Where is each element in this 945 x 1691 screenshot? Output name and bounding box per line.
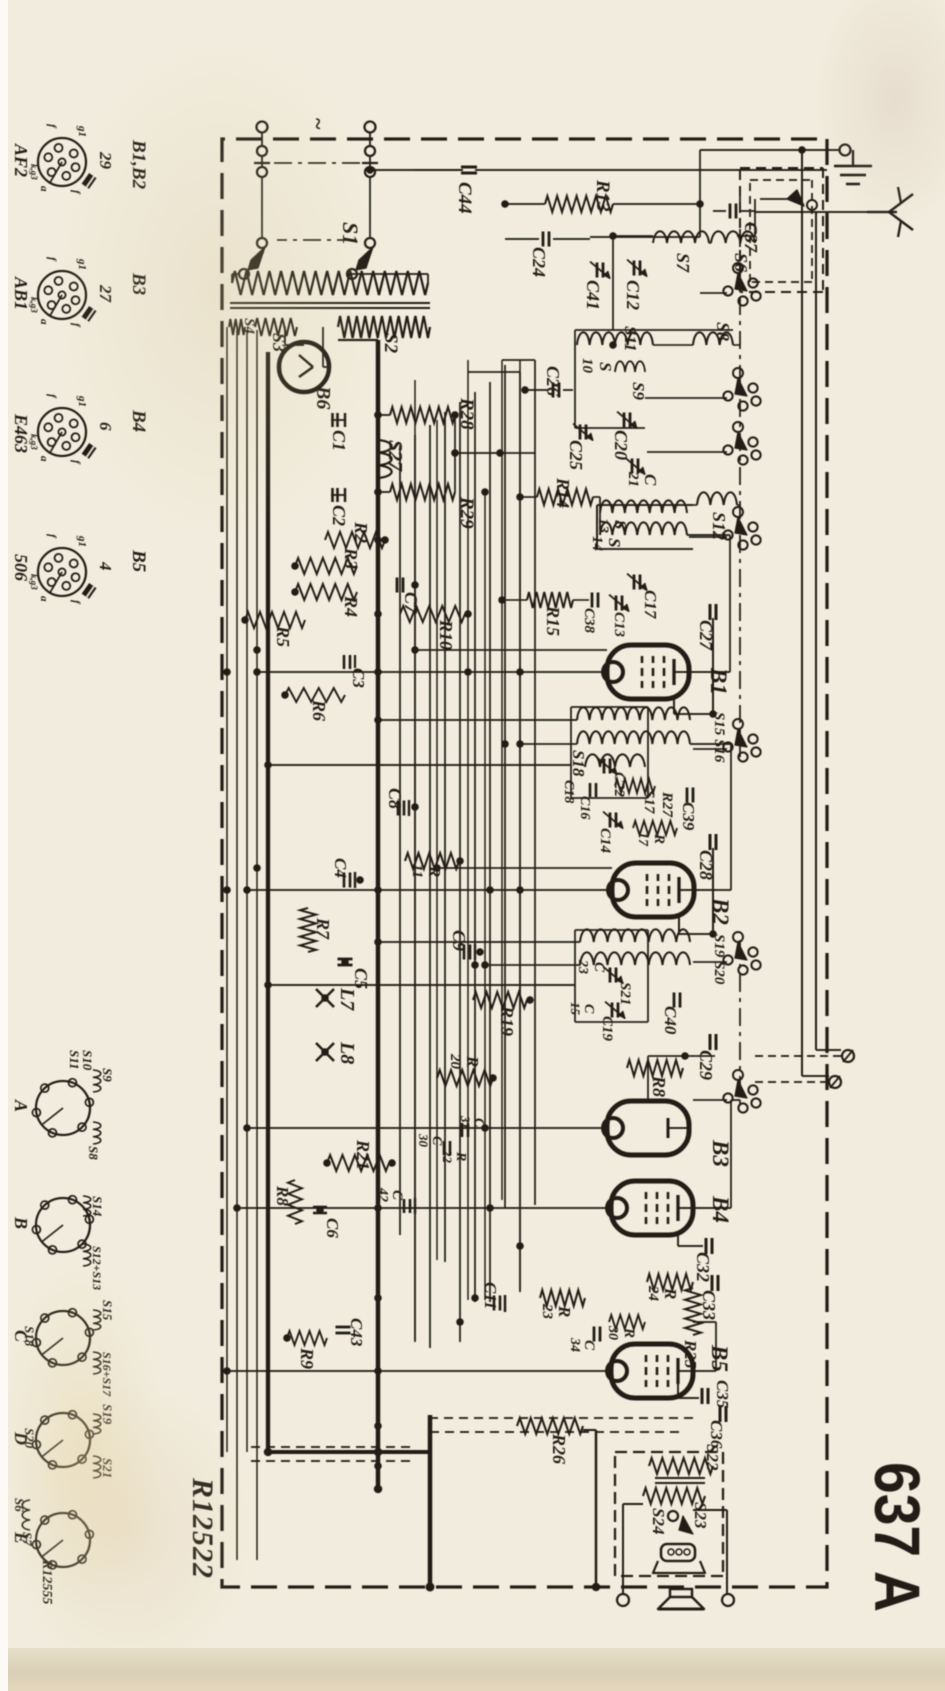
wire mesh y455 [489,382,491,1302]
wire mesh y500 [444,412,446,1262]
svg-text:C8: C8 [385,788,405,809]
tweeter cone [653,1561,705,1573]
capacitor C38 [597,593,600,608]
svg-text:S9: S9 [100,1068,115,1082]
wire S12 chain join [737,504,740,506]
wire mesh y545 [399,445,401,1235]
coil S9 [615,361,645,372]
svg-text:a: a [38,456,50,462]
wire B1 anode [673,699,675,714]
pickup terminal 2 [829,1076,841,1088]
antenna [867,211,897,213]
mains plug pin 2 [365,122,376,133]
mains link chain [272,162,360,164]
svg-text:R26: R26 [549,1433,569,1464]
svg-text:S: S [605,538,624,547]
svg-text:C26: C26 [543,366,563,396]
wire IF2 secondary down [485,964,580,966]
svg-text:E463: E463 [11,413,31,453]
wire IF2 box feed [268,984,575,986]
switch wafer E [36,1513,90,1567]
svg-text:S15 S16: S15 S16 [711,712,727,763]
resistor R29 [390,484,455,500]
coil S12 [697,492,737,505]
IF2 primary coil S19 [580,929,690,942]
resistor R19 [473,992,527,1008]
svg-text:AB1: AB1 [11,276,31,310]
svg-text:21: 21 [625,471,641,487]
coil S14 [600,522,687,535]
wire bus junction dots [374,411,382,419]
wire IF1 primary feed [378,719,577,721]
svg-text:22: 22 [440,1149,455,1164]
tube B5 [611,1344,693,1398]
ground terminal [840,145,851,156]
coil S7 [653,231,709,243]
svg-text:B3: B3 [708,1139,733,1167]
RF coil box [575,329,733,331]
wire mains 1 [261,177,263,238]
wire earth run to pickup [801,150,803,1076]
wire B4 grid link [716,1207,731,1209]
capacitor C27 [715,604,718,620]
switch contact wafer [748,383,757,392]
resistor R10 [400,606,465,622]
svg-text:AF2: AF2 [11,143,31,177]
transformer core [230,302,430,304]
wafer D coils S19 S20 S21 [93,1414,101,1434]
svg-text:23: 23 [539,1303,555,1320]
wire earth lead [700,149,839,151]
wire B2 grid [694,889,717,891]
svg-text:C41: C41 [583,280,603,310]
wire mesh y440 [504,365,506,1208]
resistor R4 [295,584,357,600]
capacitor C26 [563,389,573,391]
switch wafer C [36,1311,90,1365]
wire filament bus a [256,330,258,1560]
IF1 secondary coil S16 [577,731,690,744]
wire S1 to transformer 1 [232,273,239,275]
wire diode load [648,1055,715,1057]
svg-text:S14: S14 [90,1196,105,1217]
svg-text:R21: R21 [353,1139,373,1170]
capacitor C40 [679,993,682,1008]
svg-text:C44: C44 [454,182,475,214]
svg-text:S10: S10 [80,1050,95,1071]
wire R29 bottom [378,491,390,493]
capacitor C37 [740,210,755,212]
svg-text:R: R [661,1287,680,1299]
svg-text:R: R [651,833,667,844]
resistor R2 [325,532,385,548]
wire B2 anode to C28 [678,917,680,934]
lightning arrester [787,190,804,206]
switch S24 [679,1516,693,1534]
svg-text:S24: S24 [649,1508,668,1534]
wire R13 bottom [505,203,545,205]
trimmer C22 [609,759,612,774]
trimmer C21 [637,459,640,474]
wire mesh y470 [474,392,476,1302]
transformer secondary S3 winding [255,318,297,336]
switch S1 pole 1 [257,238,267,248]
capacitor C42 [414,1198,416,1214]
svg-text:C18: C18 [561,780,576,803]
IF1 shield box [571,706,648,708]
wire B4 grid [693,1207,716,1209]
wire IF1 secondary down [520,743,577,745]
speaker terminal 2 [617,1594,629,1606]
svg-text:C43: C43 [347,1318,366,1347]
coil S11 [577,332,653,345]
switch contact wafer [748,522,757,531]
wire mid 5 [436,420,438,1260]
svg-text:S7: S7 [673,253,693,273]
valve socket AB1 [38,271,86,319]
wire B2 grid link [717,889,731,891]
wire IF1 box feed [268,764,571,766]
resistor R14 [537,489,593,505]
svg-text:A: A [11,1099,31,1112]
wire HT heavy bus [376,340,381,1489]
resistor R28 [390,407,455,423]
capacitor C9 [474,944,476,960]
wire mesh verticals [502,359,535,361]
wire speaker dashed leads [430,1417,693,1419]
tweeter transformer [661,1544,695,1561]
resistor R20 [437,1070,493,1086]
switch gang dash-dot line [739,195,741,760]
wire B6 leads [322,327,324,367]
wire R13 top [613,203,700,205]
wire filament bus d [226,327,228,1452]
coil S13 [600,500,687,513]
svg-text:C: C [591,962,607,973]
wire mesh junction dots [516,668,524,676]
wire IF2 primary feed [378,941,580,943]
lamp L7 [316,989,334,1007]
wire filament bus b [246,330,248,1452]
wire B1 grid [689,671,713,673]
trimmer C20 [629,413,632,428]
wire R15 links [573,599,589,601]
svg-text:C20: C20 [611,430,631,460]
coil S6 [711,231,755,243]
trimmer C13 [621,596,624,611]
resistor R27 S17 [615,779,655,793]
resistor R17 [633,821,677,835]
wire C44 to mains [370,169,463,171]
wire field coil feed [595,1430,598,1587]
wire speaker lead 2 [726,1510,728,1593]
wire mesh y515 [429,425,431,1348]
resistor R7 [300,908,316,952]
svg-text:C39: C39 [679,802,698,831]
svg-text:S19 S20: S19 S20 [711,934,727,985]
capacitor C6 [313,1206,327,1209]
wire mesh y425 [519,372,521,1292]
capacitor C29 [715,1034,718,1050]
capacitor C7 [402,578,405,593]
svg-text:R: R [555,1305,574,1317]
wire earth node link [699,150,701,237]
svg-text:C32: C32 [693,1252,713,1282]
resistor R23 [540,1290,585,1306]
svg-text:C: C [389,1190,405,1201]
svg-text:C14: C14 [597,828,613,854]
resistor R5 [245,612,305,628]
switch contact wafer [748,734,757,743]
grid capacitor C1 [331,419,345,421]
svg-text:C16: C16 [577,796,592,819]
speaker terminal 1 [722,1594,734,1606]
capacitor C8 [408,800,410,816]
svg-text:C12: C12 [623,280,643,310]
resistor R30b [609,1315,645,1329]
output transformer dashed box [722,1452,724,1576]
trimmer C12 [639,261,642,276]
svg-text:a: a [38,319,50,325]
svg-text:S22: S22 [703,1444,722,1471]
trimmer C17 [639,575,642,590]
svg-text:R9: R9 [297,1347,317,1369]
svg-text:30: 30 [416,1133,431,1148]
trimmer C25 [585,425,588,440]
capacitor C36 [725,1406,728,1422]
svg-text:C4: C4 [331,858,350,878]
svg-text:B5: B5 [128,549,149,573]
resistor R11 [405,853,459,869]
svg-text:R4: R4 [341,595,361,617]
capacitor C32 [711,1238,714,1254]
wire bus vertical left [338,339,378,341]
svg-text:k,g3: k,g3 [29,574,39,590]
wire stage drop B1 cathode [257,671,607,673]
dial lamp B6 [279,342,329,392]
transformer primary S1 winding [232,271,428,295]
svg-text:C17: C17 [641,590,660,620]
resistor R18 [288,1180,302,1224]
svg-text:C: C [641,474,660,486]
coil S18 [585,754,645,767]
resistor R25 [685,1288,701,1335]
wire stage drop B1 screen [415,649,607,651]
choke S27 [378,440,392,478]
svg-text:R15: R15 [543,605,563,636]
svg-text:4: 4 [96,561,115,571]
capacitor C24 [553,238,590,240]
wire B1 anode to C27 [673,699,675,714]
wafer B coils S14 S12+S13 [83,1196,91,1216]
tube B3 duodiode [607,1101,689,1155]
capacitor C3 [354,655,356,668]
capacitor C4 [354,872,356,888]
grid capacitor C2 [331,494,345,496]
svg-text:R10: R10 [436,619,456,650]
svg-text:S17: S17 [641,790,657,814]
wire B5 grid link [693,1370,716,1372]
IF1 primary coil S15 [577,707,690,720]
resistor R15 [527,592,573,608]
svg-text:23: 23 [575,959,590,974]
trimmer C19 [617,1003,620,1018]
capacitor C35 [707,1388,710,1404]
svg-text:B5: B5 [707,1344,732,1372]
svg-text:R8: R8 [649,1075,669,1097]
switch wafer D [36,1413,90,1467]
svg-text:11: 11 [409,864,425,878]
trimmer C14 [615,813,618,828]
wire R28 R29 top link [454,415,456,492]
transformer secondary S2 winding [338,316,430,338]
svg-text:R8: R8 [273,1185,292,1206]
wire heavy HT right [428,1415,432,1587]
svg-text:R19: R19 [497,1005,517,1036]
svg-text:a: a [38,596,50,602]
svg-text:C40: C40 [661,1006,680,1035]
resistor R6 [285,688,345,702]
speaker [670,1589,692,1597]
capacitor C44 [461,166,477,169]
svg-text:R: R [463,1055,482,1067]
wire mid 6 [414,380,416,1340]
wire antenna lead [755,211,869,213]
wafer C coils S15 S16+S17 S18 [93,1310,101,1330]
svg-text:R7: R7 [313,917,333,940]
svg-text:S21: S21 [617,982,633,1005]
svg-text:C29: C29 [696,1050,716,1080]
wire B1 grid link [713,671,730,673]
svg-text:34: 34 [567,1337,582,1352]
tube B1 [607,645,689,699]
wire S1 to transformer 2 [347,273,428,275]
svg-text:17: 17 [635,832,650,847]
tube B4 [611,1181,693,1235]
wire grid AVC 4 [467,360,469,1300]
lamp L8 [316,1043,334,1061]
wire S7 bottom link [613,235,653,237]
wire pickup tails [843,1050,853,1062]
capacitor C28 [715,834,718,850]
wire mesh y485 [459,402,461,1342]
switch wafer A [36,1081,90,1135]
wire grid AVC 3 [484,490,486,1300]
svg-text:24: 24 [645,1285,661,1302]
capacitor C5 [338,958,353,961]
svg-text:C9: C9 [449,930,469,951]
svg-text:L8: L8 [336,1041,358,1064]
svg-text:R6: R6 [309,699,329,721]
output secondary S23 [643,1488,705,1504]
wire stage drop B5 [227,1370,611,1372]
svg-text:B: B [11,1216,31,1229]
svg-text:R13: R13 [592,179,613,212]
wire B4 anode to C32 [677,1235,679,1246]
svg-text:C6: C6 [323,1218,342,1238]
resistor R3 [295,558,357,574]
trimmer S21 C23 [615,968,618,983]
valve socket 506 [38,548,86,596]
wire grid AVC 1 [519,360,521,1290]
svg-text:S23: S23 [691,1502,710,1529]
svg-text:C19: C19 [599,1016,615,1042]
ground [834,150,872,184]
svg-text:B2: B2 [708,897,733,925]
svg-text:R5: R5 [273,625,293,647]
svg-text:637 A: 637 A [861,1462,933,1612]
trimmer C41 [602,263,605,278]
capacitor C34 [599,1327,602,1342]
svg-text:S8: S8 [86,1146,101,1160]
antenna shield dashed box [822,168,824,292]
svg-text:S11: S11 [67,1050,82,1070]
switch contact wafer [748,437,757,446]
svg-text:C: C [581,1004,596,1014]
svg-text:f: f [70,600,82,605]
svg-text:S: S [596,362,615,371]
valve socket E463 [38,408,86,456]
switch contact S5 [748,278,757,287]
svg-text:C13: C13 [611,612,627,638]
wire aerial run to pickup [815,212,817,1050]
svg-text:C37: C37 [741,222,761,253]
resistor R9 [287,1331,327,1345]
wafer E coils S6 S7 [22,1500,30,1530]
trimmer C30 C31 R22 [467,1123,470,1137]
resistor R8 [627,1060,683,1076]
wire S6 S7 join [709,242,711,244]
svg-text:k,g3: k,g3 [29,164,39,180]
wire stage drop B3 [247,1127,607,1129]
tube B2 [612,863,694,917]
IF2 secondary coil S20 [580,952,690,965]
svg-text:k,g3: k,g3 [29,434,39,450]
output transformer core [655,1477,705,1479]
mains plug pin 1 [257,122,268,133]
svg-text:42: 42 [375,1187,390,1202]
wire contact drops [700,292,727,294]
svg-text:C35: C35 [713,1380,732,1409]
switch contact wafer [748,1085,757,1094]
svg-text:C: C [429,1136,444,1146]
capacitor C33 [717,1275,720,1291]
wire stage drop B4 [237,1207,611,1209]
frame: main dashed border of schematic [222,139,827,1587]
resistor R13 [545,196,613,212]
switch S1 pole 2 [365,238,375,248]
svg-text:506: 506 [11,554,31,581]
wire pickup dashes [755,1055,841,1057]
svg-text:k,g3: k,g3 [29,297,39,313]
switch S1 gang chain [277,239,355,241]
svg-text:R14: R14 [553,477,573,508]
svg-text:30: 30 [605,1325,620,1340]
resistor R24 [647,1274,693,1290]
wire stage drop B2 screen [437,867,612,869]
wire S8 chain join [733,344,740,346]
capacitor C16 C18 [595,783,598,797]
wire speaker lead 1 [622,1504,624,1593]
IF2 shield box [575,929,648,931]
svg-text:C: C [581,1340,597,1351]
wire R14 links [599,497,601,535]
svg-text:R: R [621,1327,637,1338]
svg-text:a: a [38,186,50,192]
transformer secondary S4 winding [229,319,245,335]
resistor R21 [327,1155,389,1171]
wire heavy bus 2 [266,352,270,1452]
